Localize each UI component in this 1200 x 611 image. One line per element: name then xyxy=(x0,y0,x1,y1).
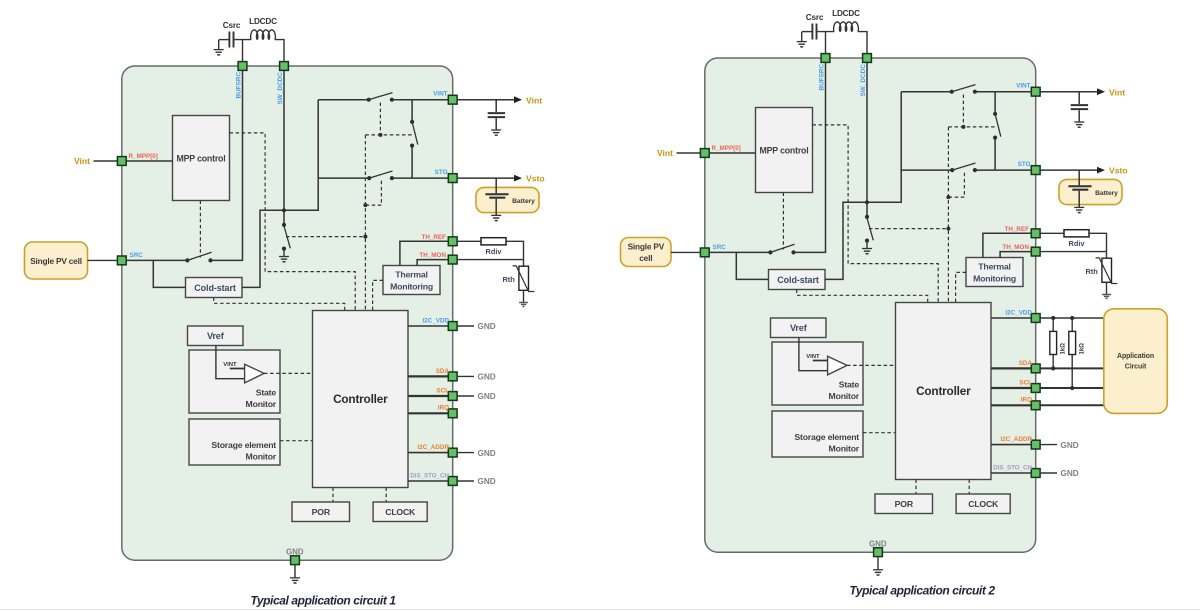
block POR (circuit 2) xyxy=(875,494,933,514)
wire Controller to SDA (circuit 1) xyxy=(408,375,448,377)
svg-text:Monitor: Monitor xyxy=(829,391,860,401)
svg-text:TH_REF: TH_REF xyxy=(1005,226,1030,233)
svg-text:I2C_ADDR: I2C_ADDR xyxy=(1001,436,1033,443)
application circuit box xyxy=(1104,309,1168,414)
switch VINT-STO (circuit 2) xyxy=(993,112,997,116)
svg-text:POR: POR xyxy=(312,507,331,517)
wire DIS_STO_CH to GND (circuit 1) xyxy=(457,480,474,482)
wire TH_REF to Rdiv (circuit 2) xyxy=(1040,232,1064,234)
svg-text:Monitor: Monitor xyxy=(246,399,277,409)
dashed control Thermal to controller (circuit 2) xyxy=(956,272,966,302)
wire Controller to SDA (circuit 2) xyxy=(991,367,1031,369)
ground internal (circuit 1) xyxy=(283,249,285,257)
ground battery (circuit 2) xyxy=(1074,206,1084,208)
wire STO out (circuit 1) xyxy=(457,177,514,179)
wire vertical switch bottom (circuit 2) xyxy=(994,138,996,171)
pin DIS_STO_CH (circuit 1) xyxy=(448,477,457,486)
block Vref (circuit 2) xyxy=(771,318,827,338)
wire TH_REF to Rdiv (circuit 1) xyxy=(457,240,481,242)
wire VINT out (circuit 1) xyxy=(457,99,514,101)
dashed Storage Monitor to controller (circuit 1) xyxy=(280,440,313,442)
wire STO out (circuit 2) xyxy=(1040,169,1097,171)
comparator U1 (circuit 1) xyxy=(245,364,264,383)
wire SRC to switch (circuit 1) xyxy=(127,259,188,261)
block Thermal Monitoring (circuit 2) xyxy=(966,258,1023,287)
dashed control STO switch (circuit 2) xyxy=(948,173,964,197)
svg-text:I2C_ADDR: I2C_ADDR xyxy=(418,444,450,451)
junction SW_DCDC node (circuit 1) xyxy=(282,208,286,212)
capacitor Csrc (circuit 2) xyxy=(811,24,813,40)
dashed control STO switch (circuit 1) xyxy=(365,181,381,205)
switch VINT (circuit 2) xyxy=(950,90,954,94)
wire STO rail (circuit 2) xyxy=(901,169,952,171)
svg-text:IRQ: IRQ xyxy=(1021,397,1032,404)
svg-text:GND: GND xyxy=(478,322,496,331)
arrow Vint (circuit 1) xyxy=(514,96,522,103)
svg-text:Battery: Battery xyxy=(1095,190,1118,197)
svg-text:SDA: SDA xyxy=(436,368,450,375)
block CLOCK (circuit 1) xyxy=(373,502,427,522)
pin TH_REF (circuit 2) xyxy=(1031,229,1040,238)
wire switch to VINT pin (circuit 1) xyxy=(392,99,448,101)
dashed control MPP to controller (circuit 1) xyxy=(230,133,356,311)
svg-text:R_MPP[0]: R_MPP[0] xyxy=(129,153,158,160)
svg-text:BUFSRC: BUFSRC xyxy=(818,63,825,90)
svg-text:MPP control: MPP control xyxy=(177,153,226,163)
ground internal (circuit 2) xyxy=(866,241,868,249)
wire SDA to GND (circuit 1) xyxy=(457,375,474,377)
wire TH_REF (circuit 2) xyxy=(983,233,1031,257)
wire ground to Csrc (circuit 1) xyxy=(219,39,229,41)
wire TH_MON to Rth (circuit 1) xyxy=(457,259,523,261)
wire I2C_ADDR to GND (circuit 2) xyxy=(1040,444,1057,446)
pin TH_REF (circuit 1) xyxy=(448,237,457,246)
dashed control MPP to SRC switch (circuit 1) xyxy=(199,201,201,258)
ground Cint (circuit 1) xyxy=(491,129,501,131)
wire SRC to switch (circuit 2) xyxy=(710,251,771,253)
wire Controller to DIS_STO_CH (circuit 2) xyxy=(991,472,1031,474)
svg-text:Thermal: Thermal xyxy=(978,262,1010,272)
dashed Controller to CLOCK (circuit 2) xyxy=(968,480,970,495)
pin VINT (circuit 2) xyxy=(1031,87,1040,96)
pin R_MPP[0] (circuit 1) xyxy=(117,157,126,166)
arrow Vsto (circuit 2) xyxy=(1097,167,1105,174)
pin BUFSRC (circuit 2) xyxy=(821,54,830,63)
block MPP control (circuit 1) xyxy=(173,116,230,201)
wire BUFSRC drop (circuit 1) xyxy=(242,40,244,62)
svg-text:GND: GND xyxy=(478,373,496,382)
svg-text:1kΩ: 1kΩ xyxy=(1080,343,1086,355)
svg-text:TH_MON: TH_MON xyxy=(1002,244,1029,251)
pin SW_DCDC (circuit 1) xyxy=(280,62,289,71)
wire TH_MON (circuit 2) xyxy=(1000,252,1031,258)
wire BUFSRC drop (circuit 2) xyxy=(825,32,827,54)
wire SW_DCDC internal (circuit 2) xyxy=(866,63,868,217)
junction SW_DCDC node (circuit 2) xyxy=(865,200,869,204)
pin SCL (circuit 2) xyxy=(1031,384,1040,393)
block Storage element Monitor (circuit 1) xyxy=(189,419,280,465)
ground Rth (circuit 1) xyxy=(519,302,528,304)
dashed Controller to POR (circuit 2) xyxy=(915,480,917,495)
wire SDA to application circuit xyxy=(1040,367,1104,369)
dashed control Cold-start to controller (circuit 1) xyxy=(214,298,345,311)
resistor Rdiv (circuit 1) xyxy=(481,238,506,245)
pin DIS_STO_CH (circuit 2) xyxy=(1031,469,1040,478)
switch SW_DCDC to ground (circuit 2) xyxy=(865,215,869,219)
svg-text:SCL: SCL xyxy=(436,387,449,394)
svg-text:I2C_VDD: I2C_VDD xyxy=(422,318,449,325)
wire R_MPP to MPP control (circuit 2) xyxy=(710,152,756,154)
dashed State Monitor to controller (circuit 1) xyxy=(264,372,313,374)
ground Cint (circuit 2) xyxy=(1074,121,1084,123)
svg-text:STO: STO xyxy=(1018,161,1031,168)
wire SRC to Cold-start (circuit 2) xyxy=(736,252,768,279)
wire VINT rail (circuit 1) xyxy=(318,99,369,101)
svg-text:Vref: Vref xyxy=(790,323,808,333)
svg-text:Monitor: Monitor xyxy=(246,452,277,462)
dashed control MPP to SRC switch (circuit 2) xyxy=(782,193,784,250)
page bottom rule xyxy=(0,609,1200,610)
wire Cold-start right (circuit 2) xyxy=(825,92,901,280)
svg-text:Rth: Rth xyxy=(502,275,515,284)
svg-text:Vint: Vint xyxy=(657,148,673,158)
svg-text:Rdiv: Rdiv xyxy=(485,247,502,256)
pin SCL (circuit 1) xyxy=(448,392,457,401)
svg-text:SW_DCDC: SW_DCDC xyxy=(860,64,867,97)
block Cold-start (circuit 1) xyxy=(186,278,243,298)
dashed control main vertical (circuit 1) xyxy=(364,135,366,311)
pin R_MPP[0] (circuit 2) xyxy=(700,149,709,158)
wire I2C_ADDR to GND (circuit 1) xyxy=(457,452,474,454)
svg-text:SRC: SRC xyxy=(713,244,727,251)
wire Controller to I2C_VDD (circuit 1) xyxy=(408,325,448,327)
block Controller (circuit 2) xyxy=(896,303,992,480)
wire vertical switch top (circuit 1) xyxy=(411,100,413,122)
wire SRC switch to BUFSRC line (circuit 1) xyxy=(211,71,243,261)
wire switch to STO pin (circuit 1) xyxy=(392,177,448,179)
svg-text:Monitoring: Monitoring xyxy=(390,281,433,291)
svg-text:VINT: VINT xyxy=(1016,83,1030,90)
svg-text:cell: cell xyxy=(639,253,652,263)
svg-text:DIS_STO_CH: DIS_STO_CH xyxy=(993,464,1032,471)
wire I2C_VDD to GND (circuit 1) xyxy=(457,325,474,327)
dashed control VINT switch (circuit 1) xyxy=(379,103,381,135)
svg-text:POR: POR xyxy=(895,499,914,509)
wire PV cell to SRC (circuit 1) xyxy=(88,259,118,261)
pin SRC (circuit 2) xyxy=(700,248,709,257)
wire switch to STO pin (circuit 2) xyxy=(975,169,1031,171)
pin BUFSRC (circuit 1) xyxy=(238,62,247,71)
block CLOCK (circuit 2) xyxy=(956,494,1010,514)
wire SW_DCDC internal (circuit 1) xyxy=(283,71,285,225)
arrow Vsto (circuit 1) xyxy=(514,175,522,182)
svg-text:Controller: Controller xyxy=(916,384,971,398)
svg-text:CLOCK: CLOCK xyxy=(385,507,416,517)
svg-text:LDCDC: LDCDC xyxy=(832,9,860,18)
dashed control crossbar (circuit 1) xyxy=(365,134,412,136)
dashed control VINT switch (circuit 2) xyxy=(962,95,964,127)
svg-text:VINT: VINT xyxy=(806,354,820,360)
svg-text:Single PV cell: Single PV cell xyxy=(30,256,82,266)
svg-text:Monitor: Monitor xyxy=(829,444,860,454)
svg-text:Application: Application xyxy=(1117,353,1154,360)
arrow Vint (circuit 2) xyxy=(1097,88,1105,95)
svg-text:R_MPP[0]: R_MPP[0] xyxy=(712,145,741,152)
wire STO rail (circuit 1) xyxy=(318,177,369,179)
svg-text:DIS_STO_CH: DIS_STO_CH xyxy=(410,472,449,479)
pin SDA (circuit 2) xyxy=(1031,364,1040,373)
svg-text:State: State xyxy=(256,388,277,398)
wire LDCDC to SW_DCDC (circuit 2) xyxy=(858,32,867,54)
wire SCL to GND (circuit 1) xyxy=(457,395,474,397)
battery symbol (circuit 1) xyxy=(495,178,497,193)
svg-text:GND: GND xyxy=(478,477,496,486)
thermistor Rth (circuit 2) xyxy=(1106,252,1108,259)
svg-text:GND: GND xyxy=(1061,441,1079,450)
IC body (circuit 1) xyxy=(122,66,453,560)
dashed control ground switch (circuit 2) xyxy=(869,228,948,230)
battery box (circuit 1) xyxy=(476,187,539,212)
wire SRC to Cold-start (circuit 1) xyxy=(153,260,185,287)
svg-text:Typical application circuit 2: Typical application circuit 2 xyxy=(849,584,995,598)
capacitor Cint (circuit 2) xyxy=(1078,92,1080,104)
block Cold-start (circuit 2) xyxy=(769,270,826,290)
svg-text:MPP control: MPP control xyxy=(760,145,809,155)
svg-text:TH_MON: TH_MON xyxy=(419,252,446,259)
block Vref (circuit 1) xyxy=(188,326,244,346)
wire Vref to comparator (circuit 2) xyxy=(799,338,828,371)
wire Controller to I2C_ADDR (circuit 1) xyxy=(408,452,448,454)
svg-text:CLOCK: CLOCK xyxy=(968,499,999,509)
IC body (circuit 2) xyxy=(705,58,1036,552)
wire R_MPP to MPP control (circuit 1) xyxy=(127,160,173,162)
battery box (circuit 2) xyxy=(1059,179,1122,204)
svg-text:SW_DCDC: SW_DCDC xyxy=(277,72,284,105)
dashed control Cold-start to controller (circuit 2) xyxy=(797,290,928,303)
dashed Storage Monitor to controller (circuit 2) xyxy=(863,432,896,434)
dashed Controller to POR (circuit 1) xyxy=(332,488,334,503)
switch STO (circuit 1) xyxy=(367,176,371,180)
wire Cold-start right (circuit 1) xyxy=(242,100,318,288)
wire PV cell to SRC (circuit 2) xyxy=(671,251,700,253)
ground Rth (circuit 2) xyxy=(1102,294,1111,296)
wire VINT out (circuit 2) xyxy=(1040,91,1097,93)
pin SW_DCDC (circuit 2) xyxy=(863,54,872,63)
inductor LDCDC (circuit 1) xyxy=(251,30,276,39)
block Storage element Monitor (circuit 2) xyxy=(772,411,863,457)
wire SRC switch to BUFSRC line (circuit 2) xyxy=(794,63,826,253)
wire Csrc to LDCDC (circuit 2) xyxy=(818,31,835,33)
dashed control crossbar (circuit 2) xyxy=(948,126,995,128)
ground for Csrc (circuit 1) xyxy=(218,40,220,50)
wire Controller to I2C_VDD (circuit 2) xyxy=(991,317,1031,319)
wire Vref to comparator (circuit 1) xyxy=(216,346,245,379)
resistor R2 1k pull-up SCL xyxy=(1070,316,1074,320)
svg-text:Vref: Vref xyxy=(207,331,225,341)
pin I2C_ADDR (circuit 2) xyxy=(1031,440,1040,449)
pin VINT (circuit 1) xyxy=(448,95,457,104)
svg-text:Vint: Vint xyxy=(1109,87,1125,97)
wire Vint to R_MPP (circuit 1) xyxy=(94,160,118,162)
dashed control MPP to controller (circuit 2) xyxy=(813,125,939,303)
pin TH_MON (circuit 1) xyxy=(448,255,457,264)
svg-text:VINT: VINT xyxy=(223,362,237,368)
dashed control main vertical (circuit 2) xyxy=(947,127,949,303)
pin TH_MON (circuit 2) xyxy=(1031,247,1040,256)
pin SRC (circuit 1) xyxy=(117,256,126,265)
dashed Controller to CLOCK (circuit 1) xyxy=(385,488,387,503)
svg-text:STO: STO xyxy=(435,169,448,176)
wire LDCDC to SW_DCDC (circuit 1) xyxy=(275,40,284,62)
switch STO (circuit 2) xyxy=(950,168,954,172)
wire ground to Csrc (circuit 2) xyxy=(802,31,812,33)
ground for Csrc (circuit 2) xyxy=(801,32,803,42)
svg-text:State: State xyxy=(839,380,860,390)
svg-text:Single PV: Single PV xyxy=(628,242,665,252)
block State Monitor (circuit 1) xyxy=(189,350,280,413)
svg-text:Vint: Vint xyxy=(526,95,542,105)
wire VINT to comparator (circuit 1) xyxy=(230,368,245,370)
wire IRQ to application circuit xyxy=(1040,404,1104,406)
ground battery (circuit 1) xyxy=(491,214,501,216)
block State Monitor (circuit 2) xyxy=(772,342,863,405)
wire Csrc to LDCDC (circuit 1) xyxy=(235,39,252,41)
ground bottom (circuit 1) xyxy=(294,565,296,578)
svg-text:GND: GND xyxy=(478,392,496,401)
pin I2C_ADDR (circuit 1) xyxy=(448,448,457,457)
source box Single PV cell (circuit 2) xyxy=(621,238,672,267)
svg-text:LDCDC: LDCDC xyxy=(249,17,277,26)
wire Rdiv to Rth (circuit 2) xyxy=(1089,233,1107,251)
pin I2C_VDD (circuit 2) xyxy=(1031,314,1040,323)
capacitor Csrc (circuit 1) xyxy=(228,32,230,48)
svg-text:Vsto: Vsto xyxy=(1109,166,1128,176)
resistor R1 1k pull-up SDA xyxy=(1051,316,1055,320)
svg-text:GND: GND xyxy=(1061,469,1079,478)
wire TH_MON (circuit 1) xyxy=(417,260,448,266)
pin STO (circuit 2) xyxy=(1031,166,1040,175)
block Thermal Monitoring (circuit 1) xyxy=(383,266,440,295)
switch SW_DCDC to ground (circuit 1) xyxy=(282,223,286,227)
dashed State Monitor to controller (circuit 2) xyxy=(847,364,896,366)
svg-text:Csrc: Csrc xyxy=(806,13,824,22)
wire Vint to R_MPP (circuit 2) xyxy=(677,152,701,154)
svg-text:Vint: Vint xyxy=(74,156,90,166)
svg-text:I2C_VDD: I2C_VDD xyxy=(1005,310,1032,317)
capacitor Cint (circuit 1) xyxy=(495,100,497,112)
svg-text:1kΩ: 1kΩ xyxy=(1061,343,1067,355)
svg-text:Controller: Controller xyxy=(333,392,388,406)
svg-text:Thermal: Thermal xyxy=(395,270,427,280)
svg-text:Cold-start: Cold-start xyxy=(777,275,819,285)
wire Controller to SCL (circuit 2) xyxy=(991,387,1031,389)
wire Controller to DIS_STO_CH (circuit 1) xyxy=(408,480,448,482)
inductor LDCDC (circuit 2) xyxy=(834,22,859,31)
svg-text:Csrc: Csrc xyxy=(223,21,241,30)
block POR (circuit 1) xyxy=(292,502,350,522)
svg-text:Monitoring: Monitoring xyxy=(973,273,1016,283)
thermistor Rth (circuit 1) xyxy=(523,260,525,267)
wire Controller to SCL (circuit 1) xyxy=(408,395,448,397)
wire I2C_VDD to application circuit xyxy=(1040,317,1104,319)
svg-text:Storage element: Storage element xyxy=(211,440,276,450)
wire Controller to I2C_ADDR (circuit 2) xyxy=(991,444,1031,446)
wire SCL to application circuit xyxy=(1040,387,1104,389)
svg-text:Battery: Battery xyxy=(512,198,535,205)
svg-text:IRQ: IRQ xyxy=(438,405,449,412)
pin IRQ (circuit 2) xyxy=(1031,401,1040,410)
svg-text:VINT: VINT xyxy=(433,91,447,98)
pin IRQ (circuit 1) xyxy=(448,409,457,418)
wire DIS_STO_CH to GND (circuit 2) xyxy=(1040,472,1057,474)
wire vertical switch bottom (circuit 1) xyxy=(411,146,413,179)
wire Rdiv to Rth (circuit 1) xyxy=(506,241,524,259)
dashed control Thermal to controller (circuit 1) xyxy=(373,280,383,310)
pin STO (circuit 1) xyxy=(448,174,457,183)
battery symbol (circuit 2) xyxy=(1078,170,1080,185)
resistor Rdiv (circuit 2) xyxy=(1064,230,1089,237)
switch VINT (circuit 1) xyxy=(367,98,371,102)
dashed control ground switch (circuit 1) xyxy=(286,236,365,238)
pin I2C_VDD (circuit 1) xyxy=(448,322,457,331)
svg-text:Typical application circuit 1: Typical application circuit 1 xyxy=(250,594,396,608)
wire TH_REF (circuit 1) xyxy=(400,241,448,265)
wire VINT rail (circuit 2) xyxy=(901,91,952,93)
wire Controller to IRQ (circuit 1) xyxy=(408,412,448,414)
wire Controller to IRQ (circuit 2) xyxy=(991,404,1031,406)
source box Single PV cell (circuit 1) xyxy=(25,242,88,279)
switch SRC (circuit 2) xyxy=(768,250,772,254)
switch VINT-STO (circuit 1) xyxy=(410,120,414,124)
wire vertical switch top (circuit 2) xyxy=(994,92,996,114)
svg-text:Rdiv: Rdiv xyxy=(1068,239,1085,248)
svg-text:Storage element: Storage element xyxy=(794,432,859,442)
block Controller (circuit 1) xyxy=(313,311,409,488)
pin SDA (circuit 1) xyxy=(448,372,457,381)
switch SRC (circuit 1) xyxy=(185,258,189,262)
svg-text:Cold-start: Cold-start xyxy=(194,283,236,293)
svg-text:GND: GND xyxy=(478,449,496,458)
comparator U1 (circuit 2) xyxy=(828,356,847,375)
svg-text:BUFSRC: BUFSRC xyxy=(235,71,242,98)
svg-text:SDA: SDA xyxy=(1019,360,1033,367)
ground bottom (circuit 2) xyxy=(877,557,879,570)
block MPP control (circuit 2) xyxy=(756,108,813,193)
svg-text:Rth: Rth xyxy=(1085,267,1098,276)
svg-text:SCL: SCL xyxy=(1019,379,1032,386)
svg-text:Circuit: Circuit xyxy=(1125,364,1147,371)
wire switch to VINT pin (circuit 2) xyxy=(975,91,1031,93)
svg-text:Vsto: Vsto xyxy=(526,174,545,184)
wire TH_MON to Rth (circuit 2) xyxy=(1040,251,1106,253)
svg-text:SRC: SRC xyxy=(130,252,144,259)
wire VINT to comparator (circuit 2) xyxy=(813,360,828,362)
svg-text:TH_REF: TH_REF xyxy=(422,234,447,241)
